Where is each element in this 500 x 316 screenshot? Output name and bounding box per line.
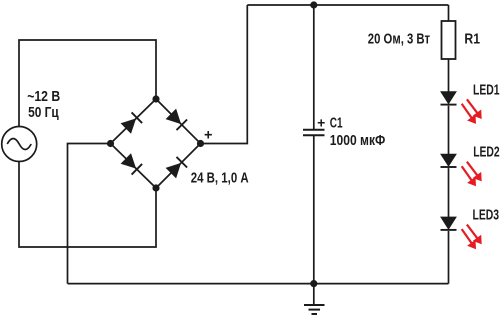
svg-text:24 В, 1,0 А: 24 В, 1,0 А [191,170,249,186]
wire: bridge diamond edges [111,99,201,188]
LED3 [441,217,457,230]
svg-text:+: + [317,115,325,131]
capacitor C1 [303,130,325,135]
node: top rail junction [310,1,317,8]
ground [304,284,325,314]
wire: bottom rail [68,283,449,285]
wire: LED1 to LED2 [448,106,450,155]
node: bridge right [197,140,204,147]
LED3 light rays [462,225,482,250]
svg-text:LED3: LED3 [473,206,500,223]
svg-text:20 Ом, 3 Вт: 20 Ом, 3 Вт [368,31,430,47]
svg-text:R1: R1 [464,31,480,47]
node: bridge bottom [152,184,159,191]
wire: LED3 to bottom rail [448,231,450,284]
wire: top rail corner down to R1 [448,5,450,21]
node: bottom rail junction [310,280,317,287]
svg-text:С1: С1 [330,115,343,131]
wire: R1 to LED1 [448,59,450,92]
wire: LED2 to LED3 [448,168,450,217]
wire: capacitor branch bottom [313,135,315,283]
AC source V1 [2,127,37,162]
wire: source top loop to bridge top [19,40,156,127]
svg-text:1000 мкФ: 1000 мкФ [330,133,386,149]
LED1 [441,92,457,105]
node: bridge left [107,140,114,147]
resistor R1 [442,21,456,59]
svg-text:LED1: LED1 [473,81,500,98]
svg-text:LED2: LED2 [473,143,500,160]
LED2 light rays [462,162,482,187]
svg-text:50 Гц: 50 Гц [28,105,59,121]
diode D3 (left to bottom) [121,153,143,174]
LED1 light rays [462,99,482,124]
diode D2 (top to right) [166,109,188,131]
wire: source bottom loop to bridge bottom [19,162,156,247]
node: bridge top [152,95,159,102]
wire: capacitor branch top [313,5,315,129]
wire: bridge right node up to top rail [201,5,248,144]
LED2 [441,154,457,167]
wire: top rail [247,4,448,6]
svg-text:~12 В: ~12 В [27,89,60,105]
svg-text:+: + [204,127,212,143]
diode D1 (left to top) [121,112,143,133]
diode D4 (bottom to right) [166,157,188,179]
wire: bridge left node to bottom rail [68,144,111,284]
